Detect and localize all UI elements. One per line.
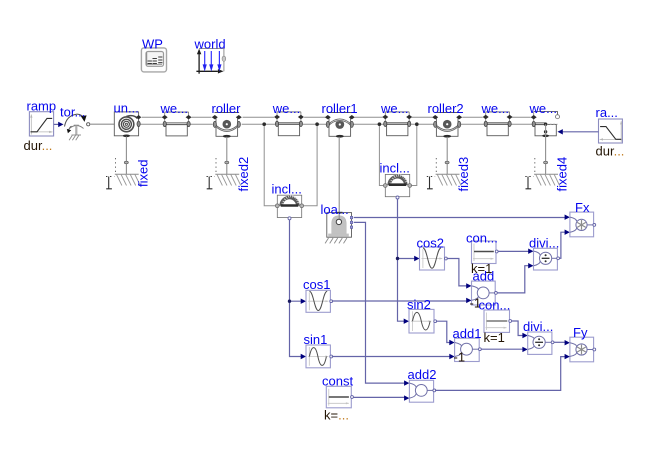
junction node at incl1 left tap <box>262 122 266 126</box>
svg-text:un...: un... <box>114 100 139 115</box>
svg-text:divi...: divi... <box>529 235 559 250</box>
wire roller2 to fixed3 <box>446 137 448 174</box>
incl1 angle sensor <box>272 182 304 220</box>
incl1 loop wires <box>264 124 317 206</box>
con... constant 2 <box>479 297 512 345</box>
Fx product block <box>570 200 596 237</box>
junction node incl1 signal branch <box>288 300 291 303</box>
fixed ground <box>106 158 150 189</box>
divi2 out wire to Fy <box>554 341 565 343</box>
sin2 out wire to add1 <box>436 321 450 342</box>
svg-text:roller: roller <box>212 101 242 116</box>
divi1 out wire to Fx <box>560 232 566 258</box>
wire torque to un <box>90 123 115 125</box>
torque source tor... <box>60 104 90 140</box>
roller block <box>212 101 242 138</box>
svg-text:Fy: Fy <box>573 325 588 340</box>
con1 out wire to divi1 <box>498 250 529 252</box>
svg-text:const: const <box>322 374 353 389</box>
sin2 block <box>407 297 437 333</box>
un... wheel block <box>114 100 142 137</box>
lower mechanical wire segments y=124.2 <box>140 123 532 125</box>
svg-text:ramp: ramp <box>27 98 57 113</box>
add1 block <box>453 326 482 365</box>
svg-text:cos2: cos2 <box>417 235 444 250</box>
wire ramp to torque <box>54 123 59 125</box>
we... end segment 6 <box>529 101 560 137</box>
svg-text:world: world <box>194 37 226 52</box>
svg-text:fixed3: fixed3 <box>456 157 471 192</box>
svg-text:we...: we... <box>272 101 300 116</box>
wire ra to we6 (speed input) <box>562 131 599 133</box>
upper mechanical wire segments y=117.2 <box>142 116 531 118</box>
fixed4 ground <box>525 157 569 192</box>
con2 out wire to divi2 <box>512 321 524 336</box>
cos1 out wire to add <box>332 300 467 302</box>
divi2 block <box>523 319 554 354</box>
ra... ramp source (mirrored) <box>596 105 625 159</box>
junction node at incl2 left tap <box>378 122 382 126</box>
svg-text:cos1: cos1 <box>303 277 330 292</box>
svg-text:-1: -1 <box>454 350 466 365</box>
incl2 loop wires <box>379 124 416 185</box>
svg-text:add1: add1 <box>453 326 482 341</box>
we... segment 4 <box>380 101 412 136</box>
junction node at incl2 right tap <box>415 122 419 126</box>
world block <box>194 37 226 74</box>
svg-text:loa...: loa... <box>321 202 349 217</box>
add2 block <box>408 367 437 402</box>
svg-text:we...: we... <box>160 101 188 116</box>
svg-text:incl...: incl... <box>380 161 410 176</box>
svg-text:roller1: roller1 <box>322 101 358 116</box>
svg-text:dur...: dur... <box>24 138 53 153</box>
junction node at incl1 right tap <box>315 122 319 126</box>
svg-text:add2: add2 <box>408 367 437 382</box>
fixed2 ground <box>207 157 251 192</box>
wire we6 to fixed4 <box>545 124 547 174</box>
roller2 block <box>428 101 464 138</box>
svg-text:ra...: ra... <box>596 105 618 120</box>
const block <box>322 374 353 423</box>
wire un to fixed <box>125 137 127 175</box>
loa position out wire to Fx <box>354 217 566 219</box>
svg-text:we...: we... <box>481 101 509 116</box>
loa velocity out wire to add2 <box>354 222 405 383</box>
svg-text:fixed: fixed <box>135 160 150 187</box>
incl2 angle sensor <box>380 161 412 200</box>
sin1 block <box>304 332 333 368</box>
svg-text:WP: WP <box>142 37 163 52</box>
Fy product block <box>570 325 596 362</box>
we... segment 2 <box>272 101 304 136</box>
loa... load mass <box>321 202 353 243</box>
add2 out wire to Fy <box>435 357 565 391</box>
cos2 out wire to add <box>447 259 467 286</box>
WP block <box>141 37 166 72</box>
svg-text:fixed4: fixed4 <box>555 157 570 192</box>
svg-text:con...: con... <box>479 297 511 312</box>
svg-text:sin2: sin2 <box>407 297 431 312</box>
fixed3 ground <box>427 157 471 192</box>
ramp source block <box>24 98 57 153</box>
sin1 out wire to add1 <box>332 356 450 358</box>
add block <box>470 268 498 310</box>
roller1 block <box>322 101 358 138</box>
we... segment 5 <box>481 101 513 136</box>
svg-text:dur...: dur... <box>596 144 625 159</box>
svg-text:incl...: incl... <box>272 182 302 197</box>
svg-text:k=1: k=1 <box>484 330 505 345</box>
svg-text:fixed2: fixed2 <box>236 157 251 192</box>
junction node incl2 signal branch <box>396 257 399 260</box>
svg-text:con...: con... <box>466 231 498 246</box>
svg-text:k=...: k=... <box>324 407 349 422</box>
cos2 block <box>417 235 448 270</box>
svg-text:tor...: tor... <box>60 104 85 119</box>
svg-text:sin1: sin1 <box>304 332 328 347</box>
svg-text:k=1: k=1 <box>471 261 492 276</box>
incl2 output wire down to cos2/sin2 <box>398 199 415 321</box>
const out wire to add2 <box>353 396 405 398</box>
incl1 output wire down to cos1/sin1 <box>290 220 302 357</box>
divi1 block <box>529 235 559 270</box>
we... segment 1 <box>160 101 192 136</box>
svg-text:we...: we... <box>529 101 557 116</box>
svg-text:divi...: divi... <box>523 319 553 334</box>
svg-text:we...: we... <box>380 101 408 116</box>
add1 out wire to divi2 <box>481 348 523 350</box>
svg-text:Fx: Fx <box>575 200 590 215</box>
svg-text:roller2: roller2 <box>428 101 464 116</box>
wire roller1 down to loa <box>338 137 340 220</box>
con... constant 1 <box>466 231 498 277</box>
cos1 block <box>303 277 333 313</box>
wire roller to fixed2 <box>226 137 228 174</box>
add out wire to divi1 <box>497 266 529 293</box>
